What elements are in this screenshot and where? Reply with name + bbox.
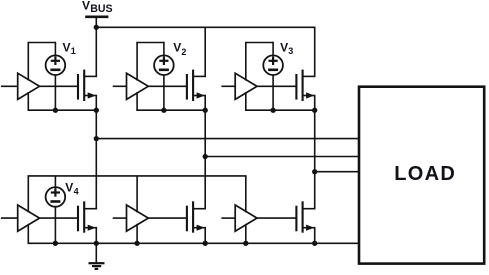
- svg-text:V: V: [63, 40, 71, 54]
- power VBUS terminal bar: [85, 15, 108, 18]
- wire phase 2 to load: [205, 156, 360, 158]
- wire U5 negative supply: [136, 224, 138, 243]
- wire U2 top rail to V2: [136, 42, 164, 44]
- label V1: [63, 40, 76, 56]
- wire cell 3 source rail: [245, 109, 316, 111]
- wire gate Q6: [257, 217, 296, 219]
- wire Q2 source riser: [204, 96, 206, 111]
- ground: [89, 243, 105, 269]
- wire VBUS rail: [96, 26, 316, 28]
- svg-text:2: 2: [181, 47, 186, 57]
- svg-text:LOAD: LOAD: [394, 163, 456, 185]
- wire V2 top lead: [163, 42, 165, 56]
- svg-text:3: 3: [288, 46, 293, 56]
- junction Q6 source on ground rail: [312, 241, 317, 246]
- wire Q3 source riser: [314, 96, 316, 111]
- svg-text:V: V: [82, 0, 90, 13]
- wire Q2 drain riser: [204, 27, 206, 77]
- wire Q4 source riser: [95, 228, 97, 244]
- load block LOAD: [359, 87, 484, 264]
- wire U6 positive supply: [245, 176, 247, 212]
- wire V2 bottom lead: [163, 75, 165, 110]
- junction Q1 source on rail: [94, 108, 99, 113]
- op-amp buffer U3: [235, 73, 257, 99]
- op-amp buffer U1: [18, 73, 40, 99]
- wire U4 positive supply: [27, 176, 29, 212]
- wire V4 bottom lead: [54, 207, 56, 244]
- wire U3 negative supply: [245, 92, 247, 110]
- voltage source V4: [46, 187, 66, 207]
- wire U3 top rail to V3: [245, 42, 273, 44]
- label VBUS: [82, 0, 113, 15]
- transistor Q3: [296, 70, 315, 101]
- transistor Q4: [78, 201, 97, 232]
- op-amp buffer U5: [127, 205, 149, 231]
- wire V1 top lead: [54, 42, 56, 56]
- junction Q2 source on rail: [203, 108, 208, 113]
- op-amp buffer U4: [18, 205, 40, 231]
- wire phase 1 to load: [96, 138, 360, 140]
- wire U2 positive supply: [136, 43, 138, 81]
- svg-text:1: 1: [71, 46, 76, 56]
- wire Q5 source riser: [204, 228, 206, 244]
- transistor Q1: [78, 70, 97, 101]
- wire input stub top cell 2: [113, 85, 127, 87]
- wire U4 negative supply: [27, 224, 29, 243]
- wire Q1 source riser: [95, 96, 97, 111]
- wire gate Q4: [40, 217, 79, 219]
- wire V3 bottom lead: [272, 75, 274, 110]
- wire U6 negative supply: [245, 224, 247, 243]
- wire half-bridge 3 output riser: [314, 110, 316, 209]
- wire U2 negative supply: [136, 92, 138, 110]
- junction phase node 3: [312, 169, 317, 174]
- wire V3 top lead: [272, 42, 274, 56]
- wire ground rail: [28, 242, 361, 244]
- wire gate Q1: [40, 85, 79, 87]
- wire input stub bottom cell 2: [113, 217, 127, 219]
- wire input stub bottom cell 1: [1, 217, 18, 219]
- wire Q6 source riser: [314, 228, 316, 244]
- wire U3 positive supply: [245, 43, 247, 81]
- wire input stub top cell 3: [221, 85, 235, 87]
- svg-text:4: 4: [74, 187, 79, 197]
- wire gate Q3: [257, 85, 296, 87]
- svg-text:V: V: [280, 40, 288, 54]
- voltage source V3: [263, 55, 283, 75]
- label V2: [173, 41, 186, 57]
- wire half-bridge 2 output riser: [204, 110, 206, 209]
- wire input stub bottom cell 3: [221, 217, 235, 219]
- wire input stub top cell 1: [1, 85, 18, 87]
- svg-text:V: V: [173, 41, 181, 55]
- wire VBUS stem: [95, 16, 97, 27]
- wire cell 1 source rail: [28, 109, 98, 111]
- wire phase 3 to load: [315, 171, 360, 173]
- junction VBUS node: [94, 25, 99, 30]
- label V4: [65, 181, 78, 197]
- wire U1 positive supply: [27, 43, 29, 81]
- junction V1 minus on rail: [53, 108, 58, 113]
- svg-text:V: V: [65, 181, 73, 195]
- wire U1 top rail to V1: [28, 42, 56, 44]
- wire U5 positive supply: [136, 176, 138, 212]
- svg-text:BUS: BUS: [90, 3, 112, 15]
- wire gate Q5: [148, 217, 187, 219]
- voltage source V1: [46, 55, 66, 75]
- wire bottom gate-drive supply rail: [28, 175, 247, 177]
- transistor Q2: [187, 70, 206, 101]
- wire cell 2 source rail: [136, 109, 206, 111]
- junction U6 negative supply on ground rail: [243, 241, 248, 246]
- wire U1 negative supply: [27, 92, 29, 110]
- voltage source V2: [154, 55, 174, 75]
- op-amp buffer U2: [127, 73, 149, 99]
- junction V2 minus on rail: [161, 108, 166, 113]
- wire half-bridge 1 output riser: [95, 110, 97, 209]
- junction Q5 source on ground rail: [203, 241, 208, 246]
- wire V1 bottom lead: [54, 75, 56, 110]
- wire gate Q2: [148, 85, 187, 87]
- junction U5 negative supply on ground rail: [134, 241, 139, 246]
- wire Q1 drain riser: [95, 27, 97, 77]
- transistor Q5: [187, 201, 206, 232]
- op-amp buffer U6: [235, 205, 257, 231]
- label V3: [280, 40, 293, 56]
- wire Q3 drain riser: [314, 27, 316, 77]
- transistor Q6: [296, 201, 315, 232]
- junction phase node 1: [94, 136, 99, 141]
- junction V3 minus on rail: [270, 108, 275, 113]
- junction V4 minus on ground rail: [53, 241, 58, 246]
- junction phase node 2: [203, 154, 208, 159]
- junction Q3 source on rail: [312, 108, 317, 113]
- junction Q4 source on ground rail: [94, 241, 99, 246]
- wire V4 top lead: [54, 176, 56, 187]
